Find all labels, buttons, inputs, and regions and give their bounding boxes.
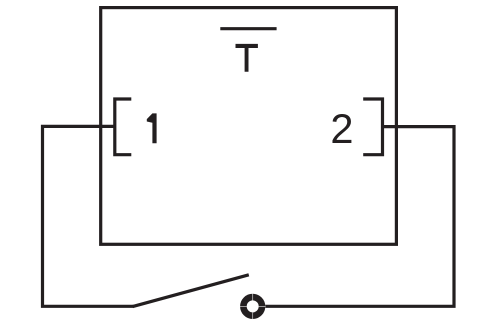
svg-text:2: 2 xyxy=(330,105,353,152)
